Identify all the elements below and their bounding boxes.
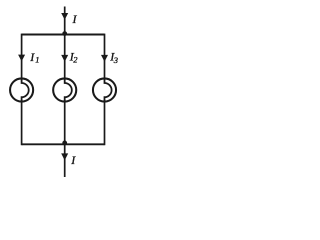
- svg-text:2: 2: [73, 55, 78, 65]
- arrowhead current I top: [61, 13, 68, 20]
- wire branch 2 bottom: [64, 101, 66, 145]
- svg-text:3: 3: [113, 55, 118, 65]
- top bus wire: [22, 34, 105, 36]
- wire top feed: [64, 7, 66, 35]
- wire bottom feed: [64, 144, 66, 177]
- wire branch 2: [64, 34, 66, 79]
- wire branch 1: [21, 34, 23, 79]
- svg-text:I: I: [29, 50, 35, 64]
- junction node bottom: [62, 141, 67, 146]
- svg-text:I: I: [72, 12, 78, 26]
- bottom bus wire: [22, 143, 105, 145]
- wire branch 1 bottom: [21, 101, 23, 145]
- wire branch 3 bottom: [104, 101, 106, 145]
- arrowhead current I3: [101, 55, 108, 62]
- svg-text:I: I: [70, 153, 76, 167]
- ac source 2 circle: [53, 78, 76, 101]
- ac source 1 sine: [22, 79, 29, 101]
- arrowhead current I bottom: [61, 153, 68, 160]
- svg-text:1: 1: [35, 55, 39, 65]
- ac source 3 sine: [105, 79, 112, 101]
- junction node top: [62, 31, 67, 36]
- arrowhead current I1: [18, 55, 25, 62]
- arrowhead current I2: [61, 55, 68, 62]
- ac source 3 circle: [93, 78, 116, 101]
- ac source 2 sine: [65, 79, 72, 101]
- ac source 1 circle: [10, 78, 33, 101]
- wire branch 3: [104, 34, 106, 79]
